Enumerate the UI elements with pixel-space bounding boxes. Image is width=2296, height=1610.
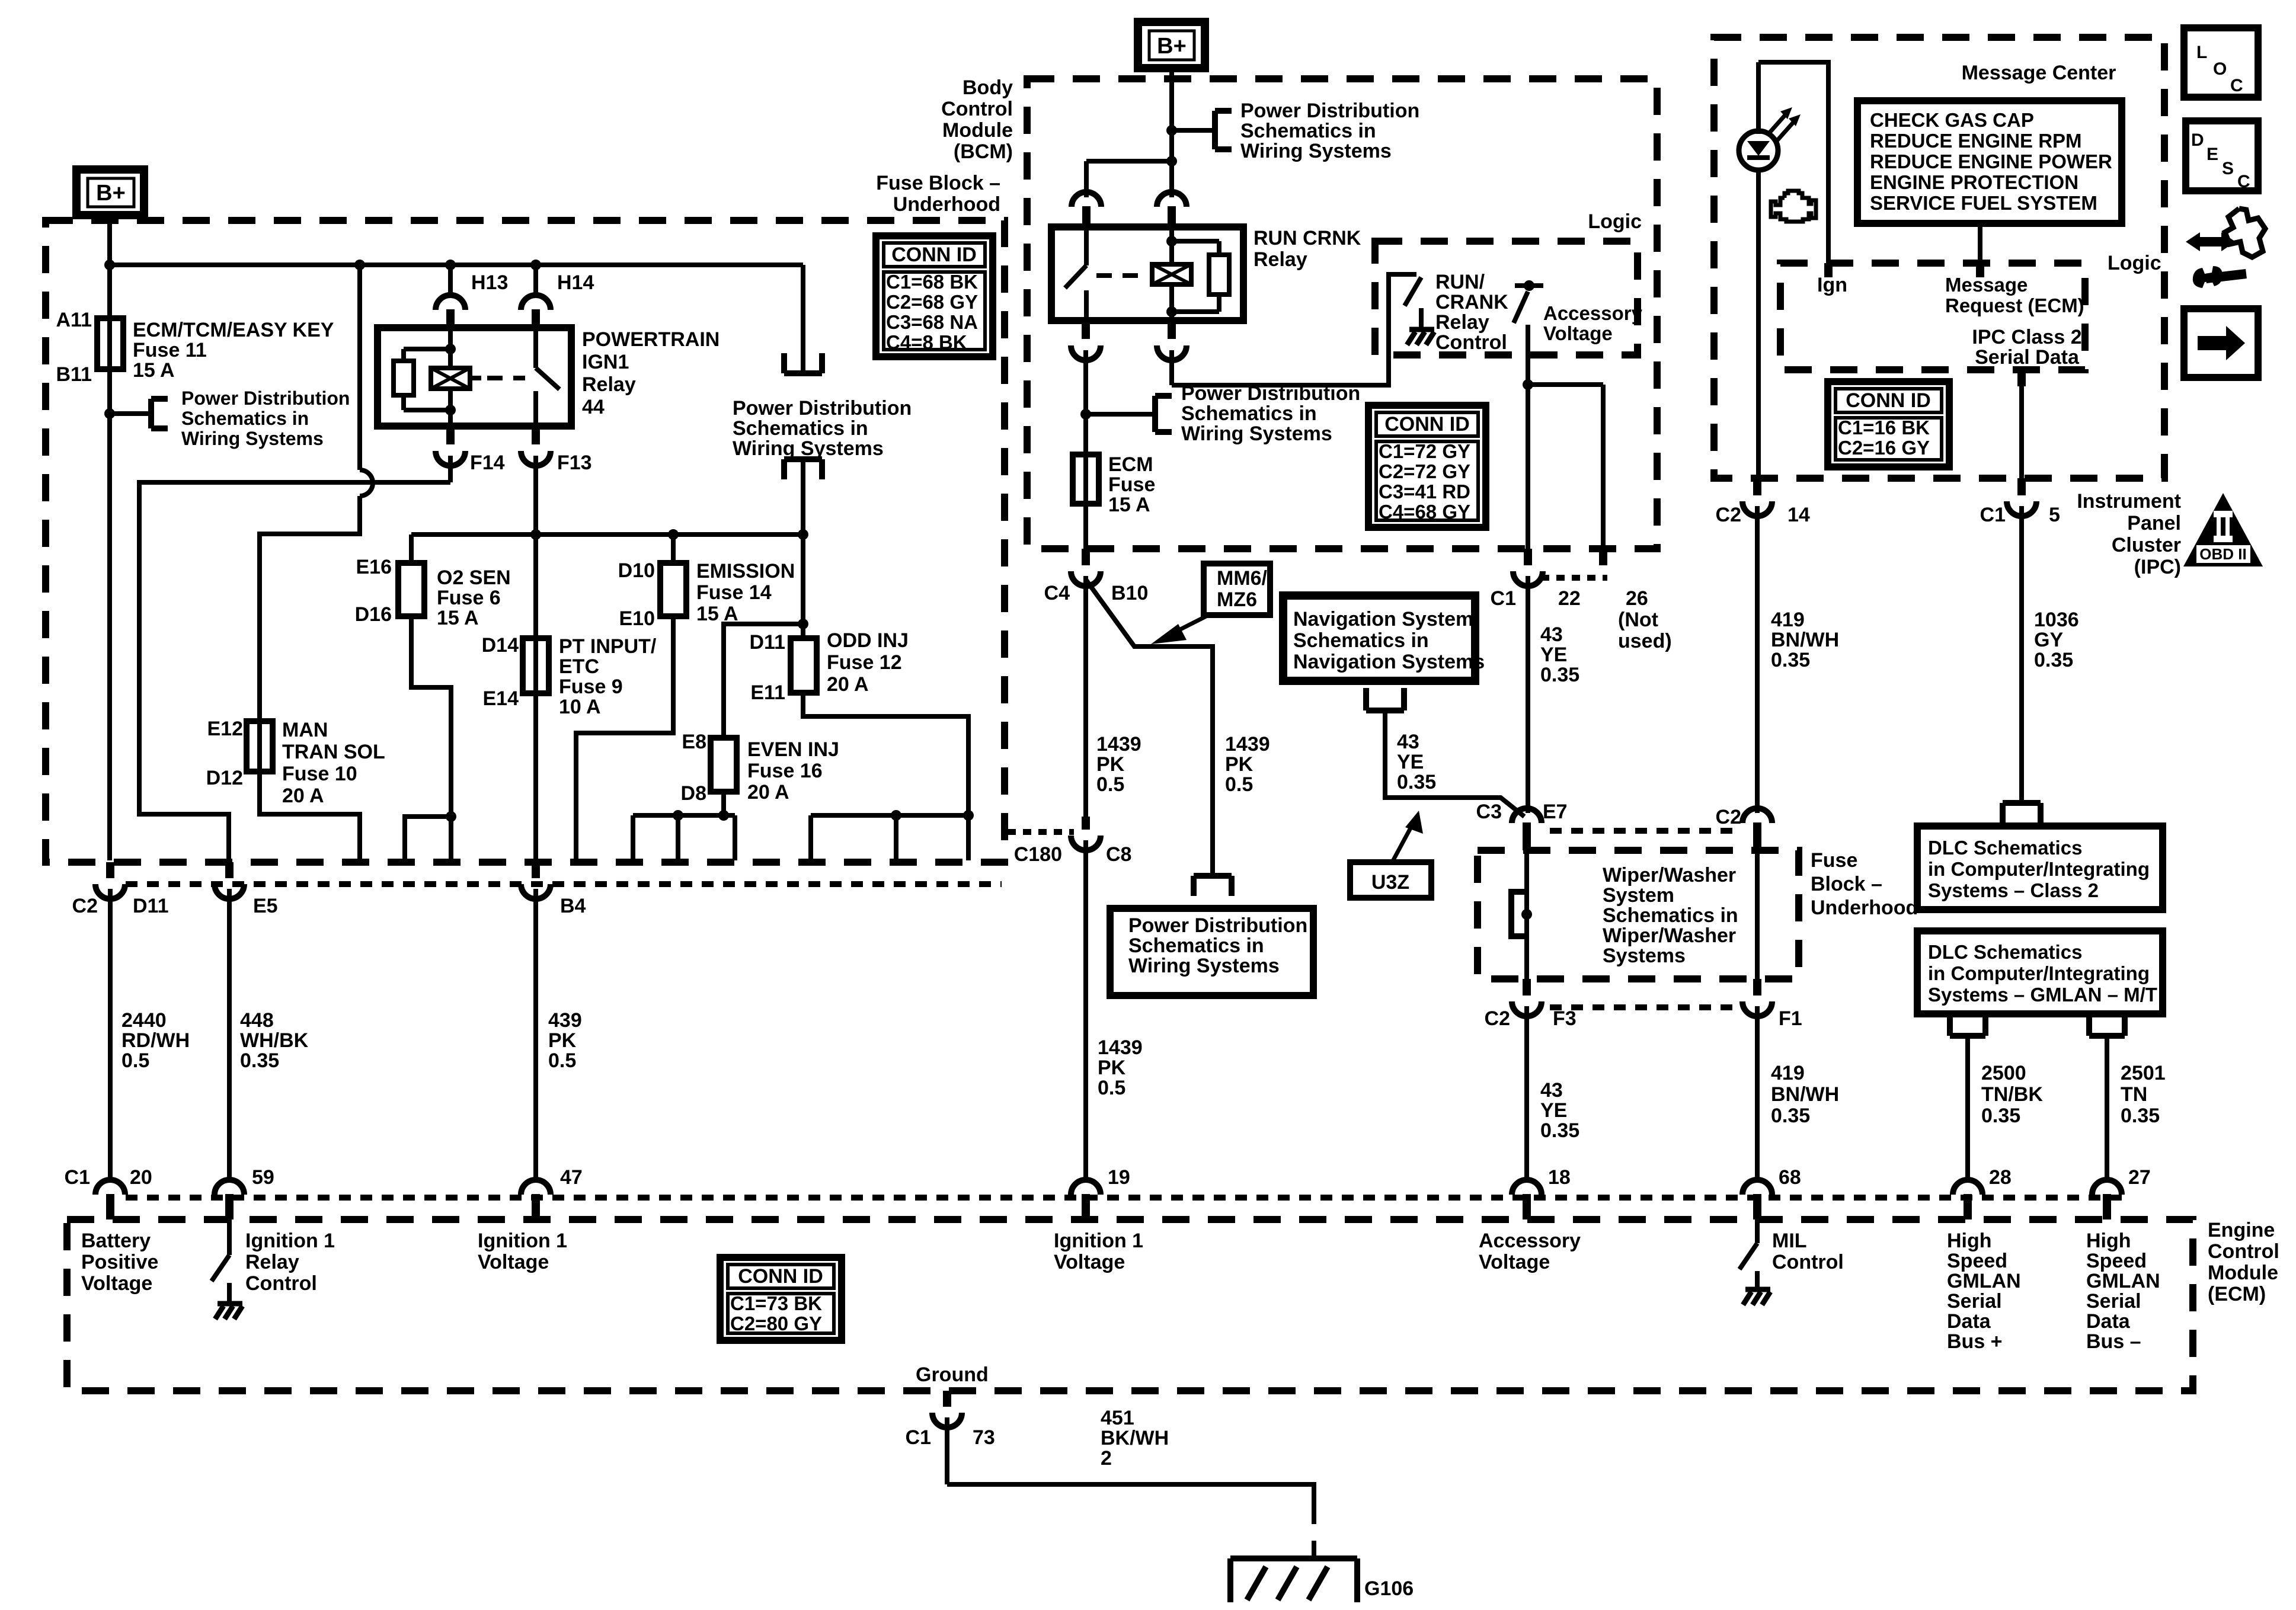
svg-text:C1=16 BK: C1=16 BK [1838,417,1930,438]
reference fork above DLC [2003,803,2041,824]
label MAN TRAN SOL Fuse 10 20 A [282,719,385,807]
node bus tap H13 [445,260,456,270]
svg-text:Ign: Ign [1817,274,1847,296]
svg-text:Instrument: Instrument [2077,490,2181,513]
label MIL Control [1772,1230,1844,1273]
svg-text:H13: H13 [471,271,508,294]
svg-text:(ECM): (ECM) [2208,1283,2266,1305]
pin E12 [207,718,244,740]
pin label 47 [560,1166,583,1189]
svg-text:YE: YE [1540,1099,1567,1122]
svg-text:MIL: MIL [1772,1230,1807,1252]
svg-text:10 A: 10 A [559,696,601,718]
svg-text:Power Distribution: Power Distribution [733,397,912,420]
fuse ECM Fuse 15A [1073,454,1099,504]
node left busbar j1 [673,810,683,821]
pin label C8 [1106,843,1131,866]
svg-text:CONN ID: CONN ID [1846,389,1931,412]
label Instrument Panel Cluster (IPC) [2077,490,2181,578]
LED wire out [1756,171,1761,478]
svg-text:15 A: 15 A [1108,494,1150,516]
pin A11 [56,309,92,331]
svg-text:0.35: 0.35 [240,1049,279,1072]
junction box: IPC Logic (dashed) [1780,263,2085,370]
node O2 SEN output branch [446,811,456,822]
svg-text:0.35: 0.35 [1540,664,1579,686]
label RUN/ CRANK Relay Control [1435,271,1508,354]
relay coil wire [1169,227,1174,321]
svg-text:Voltage: Voltage [478,1251,549,1273]
pin label C1 (5) [1980,504,2006,526]
svg-text:F13: F13 [557,452,592,474]
label ECM Fuse 15 A [1108,453,1155,516]
svg-text:DLC Schematics: DLC Schematics [1928,837,2082,859]
svg-text:C2=16 GY: C2=16 GY [1838,437,1930,459]
svg-text:in Computer/Integrating: in Computer/Integrating [1928,962,2150,984]
svg-text:ECM/TCM/EASY KEY: ECM/TCM/EASY KEY [133,319,334,341]
svg-text:YE: YE [1397,751,1424,773]
node F13 junction [530,529,541,540]
svg-text:59: 59 [252,1166,274,1189]
svg-text:Data: Data [2086,1310,2131,1333]
svg-text:Bus +: Bus + [1947,1330,2003,1353]
wire reference to ODD INJ node [801,460,805,534]
label Ground [916,1363,989,1386]
svg-text:E11: E11 [750,681,785,704]
svg-text:C2: C2 [1485,1007,1510,1030]
wire message box to logic [1978,223,1982,263]
off-page reference bracket (power distribution) [151,399,168,428]
svg-text:S: S [2222,159,2234,178]
svg-text:C3: C3 [1476,801,1502,823]
svg-text:TRAN SOL: TRAN SOL [282,741,385,763]
svg-text:73: 73 [973,1426,995,1449]
connector F14 [436,426,465,482]
svg-text:Module: Module [2208,1262,2278,1284]
label Engine Control Module (ECM) [2208,1219,2279,1305]
svg-text:Control: Control [941,98,1013,120]
wire GMLAN bus - down [2105,1036,2109,1180]
svg-text:C4=68 GY: C4=68 GY [1379,501,1470,523]
svg-text:Battery: Battery [81,1230,151,1252]
svg-text:TN: TN [2121,1083,2147,1106]
svg-text:E: E [2207,145,2218,164]
connector C2 (into fuse block) [1742,808,1772,852]
svg-text:YE: YE [1540,644,1567,666]
wire right bus bar with stubs [811,815,968,860]
fuse F11 ECM/TCM/EASY KEY Fuse 11 15A [97,318,123,369]
wire label 43 YE 0.35 (below F3) [1540,1079,1579,1142]
power symbol B+ (battery positive) middle [1138,22,1205,68]
svg-text:C: C [2230,76,2243,95]
svg-text:Fuse: Fuse [1108,473,1155,496]
stub message into logic [1976,263,1984,277]
wire EVEN INJ output [721,792,726,815]
pin label 73 [973,1426,995,1449]
wire through small fuse block [1755,852,1760,979]
node right busbar j1 [891,810,901,821]
pin label B10 [1111,582,1148,604]
svg-text:Relay: Relay [1435,311,1489,334]
svg-text:C2=80 GY: C2=80 GY [730,1313,822,1334]
label Fuse Block - Underhood (small) [1811,849,1918,919]
pin label 22 [1558,587,1581,610]
svg-text:CONN ID: CONN ID [738,1265,823,1288]
dotted connector line (fuse block bottom) [126,881,1002,887]
svg-text:Serial Data: Serial Data [1975,346,2080,369]
wire EMISSION fuse feed [671,534,676,563]
svg-text:C8: C8 [1106,843,1131,866]
svg-text:GMLAN: GMLAN [2086,1270,2160,1292]
label POWERTRAIN IGN1 Relay 44 [582,328,720,418]
svg-text:Systems: Systems [1603,945,1686,967]
svg-text:MM6/: MM6/ [1217,567,1268,590]
icon DESC box [2186,121,2258,191]
reference box Power Distribution Schematics in Wiring Systems (solid) [1110,908,1313,996]
label Fuse Block - Underhood [876,172,1000,216]
connector relay-out left [1071,321,1101,549]
svg-text:Navigation Systems: Navigation Systems [1293,651,1485,673]
pin E16 [356,556,392,578]
pin label B4 [560,895,586,917]
node coil top [445,344,456,354]
pin label D11 [133,895,169,917]
svg-text:C1: C1 [906,1426,931,1449]
svg-text:Logic: Logic [1588,210,1642,233]
arrow U3Z callout box [1350,862,1431,898]
pin label 27 [2128,1166,2151,1189]
svg-text:Schematics in: Schematics in [1240,120,1376,142]
svg-text:2: 2 [1101,1447,1112,1470]
pin label 59 [252,1166,274,1189]
connector C1/20 battery positive [95,1180,125,1219]
svg-text:CONN ID: CONN ID [891,244,977,266]
node coil bottom j [1166,306,1177,317]
label Ignition 1 Voltage (47) [478,1230,567,1273]
wire label 419 BN/WH 0.35 (upper) [1771,609,1839,671]
node bus tap H14 [530,260,541,270]
dotted connector line (ECM top) [126,1195,2128,1201]
pin label H14 [557,271,594,294]
ground (ignition relay control) [215,1304,242,1319]
svg-text:Voltage: Voltage [81,1272,152,1295]
label Power Distribution Schematics in Wiring Systems (top) [733,397,912,460]
wire EVEN INJ feed [724,624,803,738]
pin label C1 (22) [1491,587,1516,610]
svg-text:ETC: ETC [559,655,599,678]
svg-text:High: High [1947,1230,1992,1252]
svg-text:Accessory: Accessory [1543,302,1643,324]
svg-text:B+: B+ [1157,34,1187,59]
label O2 SEN Fuse 6 15 A [437,566,511,629]
conn id table (fuse block) [876,236,993,357]
node bus junction at fuse 11 column [104,260,115,270]
wire label 1439 PK 0.5 (left) [1096,733,1141,796]
svg-text:Power Distribution: Power Distribution [1128,914,1307,937]
svg-text:CHECK GAS CAP: CHECK GAS CAP [1870,109,2034,131]
svg-text:ODD INJ: ODD INJ [827,629,909,652]
svg-text:0.35: 0.35 [1771,649,1810,671]
svg-text:43: 43 [1540,623,1563,646]
relay K1 POWERTRAIN IGN1 Relay 44 (outline) [378,328,571,426]
svg-text:REDUCE ENGINE POWER: REDUCE ENGINE POWER [1870,151,2112,172]
svg-text:Relay: Relay [582,373,636,396]
svg-text:F14: F14 [470,452,505,474]
svg-text:(BCM): (BCM) [954,140,1013,163]
svg-text:14: 14 [1787,504,1810,526]
wire B+ feed bus [110,263,803,267]
relay coil wire [448,328,453,426]
wire navigation 43 YE [1385,710,1524,817]
stub Ign into logic box [1824,263,1833,277]
svg-text:used): used) [1618,630,1672,652]
svg-text:Bus –: Bus – [2086,1330,2141,1353]
connector 19 [1071,1180,1101,1219]
svg-text:47: 47 [560,1166,583,1189]
junction box: Engine Control Module ECM (dashed outline) [67,1219,2193,1391]
reference box DLC Schematics GMLAN [1917,931,2163,1014]
label EMISSION Fuse 14 15 A [696,560,795,625]
svg-text:BN/WH: BN/WH [1771,629,1839,651]
label Power Distribution Schematics in Wiring Systems (ECM fuse) [1181,382,1360,445]
relay coil (crossed box) [431,368,470,389]
pin E10 [619,607,655,630]
svg-text:Schematics in: Schematics in [1128,934,1264,957]
svg-text:C1: C1 [65,1166,90,1189]
relay switch (normally open) [536,328,559,426]
wire to power dist ref [1086,412,1155,417]
svg-text:15 A: 15 A [437,607,479,629]
svg-text:Schematics in: Schematics in [1181,402,1317,425]
svg-text:C2=68 GY: C2=68 GY [886,291,978,313]
pin D10 [618,559,655,582]
label ODD INJ Fuse 12 20 A [827,629,909,696]
svg-text:Engine: Engine [2208,1219,2275,1241]
wire O2 SEN output [411,616,451,860]
icon check-engine [1771,191,1816,222]
svg-text:GMLAN: GMLAN [1947,1270,2021,1292]
svg-text:Control: Control [245,1272,317,1295]
svg-text:19: 19 [1108,1166,1130,1189]
svg-text:Wiring Systems: Wiring Systems [1240,140,1392,162]
fuse F10 MAN TRAN SOL Fuse 10 20A [247,721,273,772]
pin label E7 [1543,801,1568,823]
wire label 43 YE 0.35 (nav) [1397,731,1436,793]
svg-text:C1=68 BK: C1=68 BK [886,271,978,293]
connector relay-in left [1072,192,1101,227]
wire label 439 PK 0.5 [548,1009,582,1072]
svg-text:C4=8 BK: C4=8 BK [886,331,967,353]
svg-text:E10: E10 [619,607,655,630]
wire ODD INJ feed [801,534,805,638]
svg-text:E12: E12 [207,718,244,740]
node ODD/EVEN branch [798,619,808,629]
svg-text:F1: F1 [1779,1007,1802,1030]
label EVEN INJ Fuse 16 20 A [747,738,839,804]
svg-text:BN/WH: BN/WH [1771,1083,1839,1106]
pin label E5 [253,895,278,917]
wire label 419 BN/WH 0.35 (lower) [1771,1062,1839,1127]
svg-text:SERVICE FUEL SYSTEM: SERVICE FUEL SYSTEM [1870,192,2097,214]
wire RUN CRNK output to logic [1172,274,1416,385]
connector F1 [1742,979,1772,1180]
reference fork upper [784,353,822,373]
LED arrows [1767,107,1801,142]
svg-text:(IPC): (IPC) [2134,556,2181,578]
wire F13 to PT INPUT fuse [533,534,538,860]
wire B+ into BCM [1169,68,1174,197]
label IPC Class 2 Serial Data [1972,326,2081,369]
wire label 1036 GY 0.35 [2034,609,2079,671]
connector C1/5 [2007,478,2036,803]
svg-text:L: L [2196,43,2207,62]
label Power Distribution Schematics in Wiring Systems (left) [181,388,350,449]
svg-text:Block –: Block – [1811,873,1882,895]
svg-text:C4: C4 [1044,582,1070,604]
reference box DLC Schematics Class 2 [1917,826,2163,910]
svg-text:2440: 2440 [121,1009,167,1032]
switch MIL control driver [1739,1219,1757,1287]
node acc branch [1523,379,1533,390]
label Wiper/Washer System Schematics [1603,864,1738,967]
svg-text:C180: C180 [1014,843,1062,866]
pin label 20 [130,1166,152,1189]
connector C3/E7 [1512,808,1542,850]
connector E5 [215,862,244,1180]
label Accessory Voltage (18) [1479,1230,1581,1273]
svg-text:PK: PK [1225,753,1253,776]
label High Speed GMLAN Serial Data Bus + [1947,1230,2021,1353]
wire ground run [947,1484,1314,1524]
svg-text:0.5: 0.5 [548,1049,576,1072]
arrow U3Z pointer [1393,811,1423,861]
svg-text:CONN ID: CONN ID [1384,413,1470,436]
conn id table (ECM) [720,1257,842,1340]
svg-text:Power Distribution: Power Distribution [181,388,350,409]
svg-text:Positive: Positive [81,1251,158,1273]
wire label 43 YE 0.35 (acc) [1540,623,1579,686]
svg-text:Wiper/Washer: Wiper/Washer [1603,864,1736,886]
connector C1/73 ground [932,1391,962,1484]
connector C180/C8 [1071,817,1101,1180]
label Accessory Voltage (logic) [1543,302,1643,344]
svg-text:26: 26 [1626,587,1648,610]
connector relay-in right [1157,192,1187,227]
svg-text:Control: Control [1772,1251,1844,1273]
wire branch to relay switch [1086,161,1172,197]
wire accessory voltage down [1526,325,1530,549]
node ODD INJ tap [798,529,808,540]
node accessory voltage tap [1515,280,1543,291]
pin label C2 [72,895,98,917]
svg-text:0.35: 0.35 [1540,1119,1579,1142]
node EMISSION tap [668,529,679,540]
pin label F14 [470,452,505,474]
svg-text:451: 451 [1101,1407,1134,1429]
svg-text:Schematics in: Schematics in [181,408,309,429]
svg-text:27: 27 [2128,1166,2151,1189]
svg-text:TN/BK: TN/BK [1981,1083,2043,1106]
connector 59 [215,1180,244,1219]
svg-text:WH/BK: WH/BK [240,1029,309,1052]
label Battery Positive Voltage [81,1230,158,1295]
svg-text:C3=41 RD: C3=41 RD [1379,481,1470,502]
reference fork lower [784,459,822,479]
label Message Center [1962,62,2116,84]
svg-text:D14: D14 [482,634,519,657]
svg-text:PK: PK [1098,1057,1126,1079]
connector 28 [1953,1180,1982,1219]
svg-text:PT INPUT/: PT INPUT/ [559,635,657,658]
svg-text:15 A: 15 A [133,359,175,382]
indicator MIL LED circle [1739,131,1778,170]
reference box Navigation System Schematics [1283,596,1485,681]
fuse F6 O2 SEN Fuse 6 15A [398,563,424,616]
svg-text:B11: B11 [56,363,92,386]
junction box: Instrument Panel Cluster IPC (dashed outline) [1714,37,2164,478]
svg-text:C2=72 GY: C2=72 GY [1379,460,1470,482]
node bus tap x607 [354,260,365,270]
svg-text:5: 5 [2049,504,2060,526]
icon OBD II triangle [2183,493,2263,566]
wire label 2440 RD/WH 0.5 [121,1009,190,1072]
pin label C2 (fuse block) [1716,806,1741,828]
svg-text:Voltage: Voltage [1479,1251,1550,1273]
svg-text:Fuse: Fuse [1811,849,1857,872]
svg-text:419: 419 [1771,609,1805,631]
pin label F13 [557,452,592,474]
wire left bus bar with stubs [633,815,735,860]
svg-text:ENGINE PROTECTION: ENGINE PROTECTION [1870,171,2078,193]
svg-text:Panel: Panel [2127,512,2181,534]
label Ignition 1 Relay Control [245,1230,335,1295]
wire from B+ to bus [107,215,112,265]
label High Speed GMLAN Serial Data Bus - [2086,1230,2160,1353]
switch accessory voltage [1514,292,1528,323]
relay dashed link [1096,273,1141,278]
svg-text:O: O [2213,59,2227,79]
svg-text:ECM: ECM [1108,453,1153,476]
svg-text:20 A: 20 A [282,785,324,807]
svg-text:Fuse 12: Fuse 12 [827,651,902,674]
svg-text:B4: B4 [560,895,586,917]
svg-text:DLC Schematics: DLC Schematics [1928,941,2082,963]
wire branch to pin 26 [1528,385,1603,549]
svg-text:D10: D10 [618,559,655,582]
pin label C3 [1476,801,1502,823]
wire label 448 WH/BK 0.35 [240,1009,309,1072]
svg-text:20 A: 20 A [827,673,869,696]
svg-text:CRANK: CRANK [1435,291,1508,313]
svg-text:C1=72 GY: C1=72 GY [1379,440,1470,462]
wire to power distribution reference [110,411,151,416]
wire bus to power distribution reference (top) [801,265,805,372]
svg-text:Schematics in: Schematics in [733,417,868,440]
svg-text:C1=73 BK: C1=73 BK [730,1292,822,1314]
junction box: BCM Logic (dashed) [1375,241,1638,355]
power symbol B+ (battery positive) left [76,169,144,215]
svg-text:Fuse 11: Fuse 11 [133,339,207,361]
pin label C2 (14) [1716,504,1741,526]
svg-text:E16: E16 [356,556,392,578]
node BCM b+ tap 2 [1166,156,1177,167]
svg-text:Fuse 10: Fuse 10 [282,763,357,785]
wire label 451 BK/WH 2 [1101,1407,1169,1470]
wire EMISSION output stub [576,616,673,860]
wire label 2501 TN 0.35 [2121,1062,2166,1127]
svg-text:Cluster: Cluster [2112,534,2181,556]
svg-text:RD/WH: RD/WH [121,1029,190,1052]
